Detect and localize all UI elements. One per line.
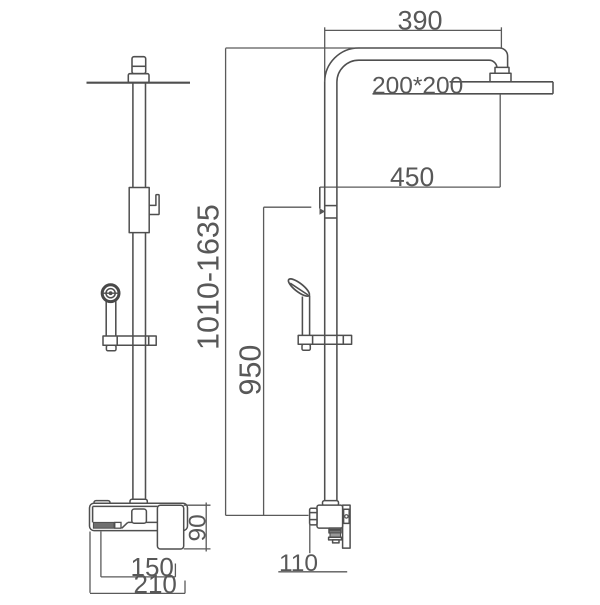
svg-text:90: 90	[185, 514, 212, 541]
svg-text:390: 390	[398, 6, 443, 36]
svg-text:200*200: 200*200	[372, 72, 463, 99]
svg-text:110: 110	[279, 550, 318, 577]
svg-text:450: 450	[390, 162, 434, 192]
svg-text:950: 950	[234, 345, 268, 396]
svg-text:210: 210	[134, 569, 177, 599]
svg-text:1010-1635: 1010-1635	[192, 204, 226, 350]
